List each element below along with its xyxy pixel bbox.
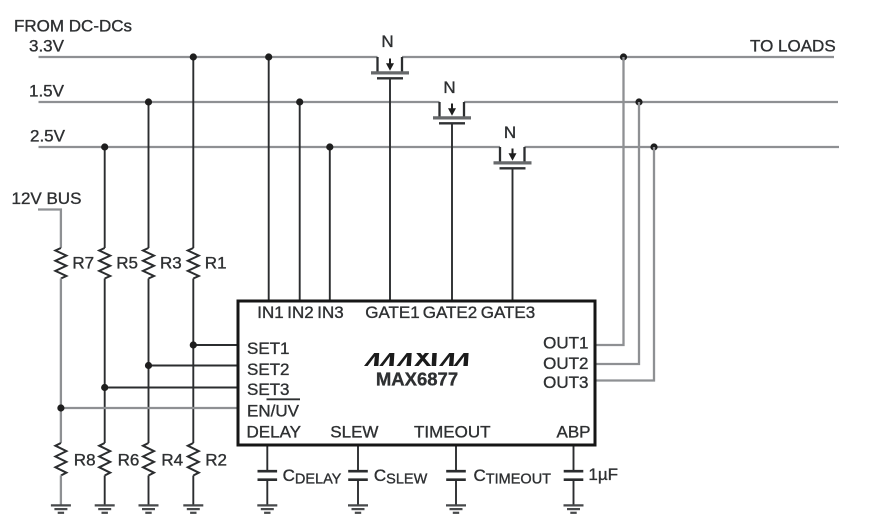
svg-text:SLEW: SLEW: [330, 423, 378, 442]
wire R3/R4 mid column: [148, 279, 150, 444]
node junction dot 3.3V-R1: [190, 53, 197, 60]
svg-text:TIMEOUT: TIMEOUT: [414, 423, 491, 442]
svg-text:GATE2: GATE2: [423, 303, 477, 322]
svg-text:R6: R6: [118, 451, 140, 470]
wire GATE1 drop: [389, 80, 391, 301]
svg-text:IN1: IN1: [257, 303, 283, 322]
wire 3.3V rail right segment to loads: [402, 56, 834, 58]
svg-text:CDELAY: CDELAY: [283, 466, 342, 488]
svg-text:3.3V: 3.3V: [29, 37, 65, 56]
node junction dot SET3 tap: [101, 384, 108, 391]
wire SET1 to R1/R2 tap: [193, 344, 238, 346]
node junction dot 1.5V-R3: [145, 98, 152, 105]
wire OUT2 elbow and riser to 1.5V rail: [597, 102, 640, 364]
svg-text:R7: R7: [72, 254, 94, 273]
svg-text:ABP: ABP: [557, 423, 591, 442]
transistor Q2 N-FET on 1.5V rail: [433, 102, 471, 123]
overline of UV: [267, 398, 301, 400]
node junction dot EN/UV tap: [57, 404, 64, 411]
wire R4 to ground: [148, 476, 150, 506]
svg-text:2.5V: 2.5V: [30, 126, 66, 145]
node junction dot 2.5V-OUT3 riser: [650, 143, 657, 150]
wire 1uF cap to ground: [573, 480, 575, 505]
node junction dot SET2 tap: [145, 362, 152, 369]
wire R6 to ground: [104, 476, 106, 506]
wire R5/R6 mid column: [104, 279, 106, 444]
ground of 1uF cap: [564, 505, 584, 512]
svg-text:EN/UV: EN/UV: [247, 401, 300, 420]
wire IN1 drop from 3.3V rail: [268, 57, 270, 300]
node junction dot 2.5V-R5: [101, 143, 108, 150]
logo MAXIM: [364, 353, 469, 366]
resistor R4: [143, 443, 154, 476]
ground of C_DELAY: [257, 505, 277, 512]
svg-text:SET2: SET2: [247, 360, 290, 379]
wire C_TIMEOUT to ground: [455, 480, 457, 505]
node junction dot 1.5V-OUT2 riser: [635, 98, 642, 105]
wire R1 top column from 3.3V rail: [192, 57, 194, 248]
wire TIMEOUT pin drop: [455, 447, 457, 472]
wire R1/R2 mid column: [192, 279, 194, 444]
svg-text:N: N: [443, 78, 455, 97]
resistor R7: [55, 248, 66, 279]
svg-text:CTIMEOUT: CTIMEOUT: [474, 466, 552, 488]
svg-text:IN2: IN2: [287, 303, 313, 322]
resistor R6: [99, 443, 110, 476]
ground of R6: [95, 505, 115, 512]
wire SLEW pin drop: [357, 447, 359, 472]
svg-text:OUT3: OUT3: [543, 373, 588, 392]
svg-text:R8: R8: [74, 451, 96, 470]
wire R5 top column from 2.5V rail: [104, 147, 106, 248]
node junction dot 1.5V-IN2: [296, 98, 303, 105]
ground of R8: [51, 505, 71, 512]
wire 12V bus elbow: [38, 210, 61, 249]
resistor R1: [188, 248, 199, 279]
resistor R3: [143, 248, 154, 279]
wire ABP pin drop: [573, 447, 575, 472]
wire C_SLEW to ground: [357, 480, 359, 505]
wire 2.5V rail left segment: [39, 146, 501, 148]
wire 3.3V rail left segment: [39, 56, 378, 58]
ground of C_SLEW: [348, 505, 368, 512]
svg-text:1.5V: 1.5V: [29, 81, 65, 100]
svg-text:1µF: 1µF: [588, 465, 618, 484]
wire EN/UV to R7/R8 tap: [61, 407, 238, 409]
svg-text:CSLEW: CSLEW: [374, 466, 428, 488]
wire IN2 drop from 1.5V rail: [299, 102, 301, 300]
svg-text:DELAY: DELAY: [247, 423, 302, 442]
op-amp U1 MAX6877 IC body: [238, 301, 595, 445]
ground of R2: [183, 505, 203, 512]
wire R3 top column from 1.5V rail: [148, 102, 150, 248]
resistor R2: [188, 443, 199, 476]
node junction dot 3.3V-IN1: [265, 53, 272, 60]
resistor R5: [99, 248, 110, 279]
ground of R4: [139, 505, 159, 512]
svg-text:R4: R4: [161, 451, 183, 470]
svg-text:R3: R3: [160, 254, 182, 273]
svg-text:MAX6877: MAX6877: [376, 369, 458, 390]
wire DELAY pin drop: [266, 447, 268, 472]
svg-text:SET1: SET1: [247, 339, 290, 358]
wire IN3 drop from 2.5V rail: [329, 147, 331, 300]
svg-text:GATE3: GATE3: [481, 303, 535, 322]
wire 1.5V rail right segment: [464, 101, 838, 103]
svg-text:TO LOADS: TO LOADS: [750, 36, 836, 55]
wire GATE2 drop: [451, 125, 453, 301]
svg-text:SET3: SET3: [247, 380, 290, 399]
wire OUT1 elbow and riser to 3.3V rail: [597, 57, 624, 345]
capacitor C_SLEW: [348, 471, 368, 480]
wire 1.5V rail left segment: [39, 101, 440, 103]
svg-text:R1: R1: [205, 254, 227, 273]
wire GATE3 drop: [512, 170, 514, 301]
capacitor 1uF: [564, 471, 584, 480]
wire SET3 to R5/R6 tap: [105, 387, 238, 389]
node junction dot SET1 tap: [190, 341, 197, 348]
svg-text:N: N: [381, 32, 393, 51]
svg-text:N: N: [504, 123, 516, 142]
svg-text:FROM DC-DCs: FROM DC-DCs: [14, 16, 132, 35]
svg-text:R5: R5: [116, 254, 138, 273]
node junction dot 2.5V-IN3: [326, 143, 333, 150]
wire R8 to ground: [60, 476, 62, 506]
svg-text:OUT2: OUT2: [543, 354, 588, 373]
capacitor C_DELAY: [258, 471, 278, 480]
node junction dot 3.3V-OUT1 riser: [620, 53, 627, 60]
resistor R8: [55, 443, 66, 476]
wire R2 to ground: [192, 476, 194, 506]
svg-text:R2: R2: [205, 451, 227, 470]
svg-text:GATE1: GATE1: [365, 303, 419, 322]
svg-text:OUT1: OUT1: [543, 333, 588, 352]
transistor Q3 N-FET on 2.5V rail: [494, 147, 532, 168]
wire SET2 to R3/R4 tap: [149, 365, 239, 367]
wire R7/R8 mid column: [60, 279, 62, 444]
transistor Q1 N-FET on 3.3V rail: [371, 57, 409, 78]
wire 2.5V rail right segment: [525, 146, 840, 148]
wire C_DELAY to ground: [266, 480, 268, 505]
ground of C_TIMEOUT: [446, 505, 466, 512]
wire OUT3 elbow and riser to 2.5V rail: [597, 147, 655, 381]
svg-text:12V BUS: 12V BUS: [12, 189, 82, 208]
svg-text:IN3: IN3: [317, 303, 343, 322]
capacitor C_TIMEOUT: [446, 471, 466, 480]
